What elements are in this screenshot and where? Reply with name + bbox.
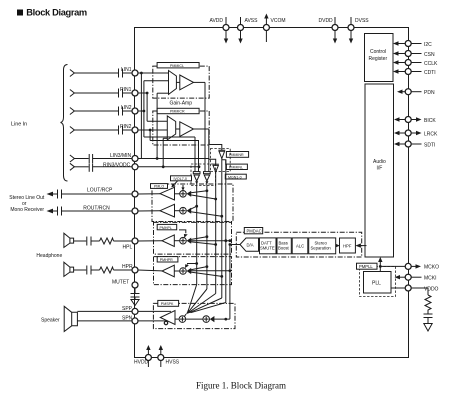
arrow into LOUT sum	[181, 185, 191, 197]
svg-text:HPF: HPF	[343, 244, 352, 249]
svg-text:PLL: PLL	[372, 281, 381, 287]
label PMMICL	[157, 63, 199, 68]
bus v216	[215, 172, 217, 294]
svg-text:RIN3/VODC: RIN3/VODC	[103, 162, 131, 168]
wire LIN2 feeder to PGA L	[144, 81, 169, 137]
svg-text:CDTI: CDTI	[424, 70, 436, 76]
svg-text:MCKO: MCKO	[424, 265, 439, 271]
label PMPLL	[357, 263, 378, 269]
svg-text:RIN1: RIN1	[120, 87, 132, 93]
pin RIN2	[120, 124, 138, 133]
block HPF	[340, 238, 356, 253]
svg-text:Boost: Boost	[278, 246, 290, 251]
arrow into ROUT sum	[187, 208, 192, 214]
pin PDN	[397, 89, 435, 96]
resistor R-HPR	[91, 267, 132, 273]
wire LIN2 in	[138, 110, 146, 113]
wire RIN3 ext	[74, 166, 88, 168]
summing node SPK2	[185, 316, 209, 323]
pin HVSS	[158, 345, 180, 367]
svg-text:SDTI: SDTI	[424, 142, 435, 148]
wire ROUT ext arrow	[47, 209, 58, 214]
summing node HPL	[174, 237, 186, 244]
attenuator A-left	[193, 172, 200, 185]
pin LRCK	[394, 130, 438, 137]
wire SPN ext	[77, 320, 132, 322]
svg-text:Figure 1. Block Diagram: Figure 1. Block Diagram	[196, 381, 286, 391]
ground GND-VCOC	[424, 324, 432, 332]
bus v199	[198, 141, 200, 172]
bus v221	[221, 159, 223, 299]
block DATT SMUTE	[260, 238, 277, 254]
wire MUTET down	[134, 288, 136, 294]
wire fan SPK 2	[189, 289, 207, 312]
arrow into HPR sum	[187, 268, 192, 274]
capacitor C-LIN3	[89, 154, 92, 163]
capacitor C-LIN1	[119, 69, 123, 78]
svg-text:RIN2: RIN2	[120, 124, 132, 130]
svg-text:LIN1: LIN1	[121, 67, 132, 73]
arrow into SPK2	[210, 316, 215, 322]
dashed box PLL	[360, 267, 396, 297]
wire T1 to T2	[222, 160, 226, 165]
svg-text:DVSS: DVSS	[355, 18, 369, 24]
block Stereo Separation	[309, 238, 336, 254]
svg-text:PMMINR: PMMINR	[229, 153, 244, 157]
wire slant LOUT a	[189, 189, 208, 193]
control arrow HPR	[185, 262, 198, 268]
input source RIN3	[70, 163, 75, 170]
pin MUTET	[112, 280, 138, 289]
svg-text:HPR: HPR	[122, 264, 133, 270]
wire PLL to Audio IF	[378, 257, 382, 272]
svg-text:I2C: I2C	[424, 42, 432, 48]
svg-text:LOUT/RCP: LOUT/RCP	[87, 188, 113, 194]
arrow fan into SPK1	[184, 309, 191, 316]
attenuator A-right	[204, 172, 211, 185]
ground GND-MUTET	[131, 300, 139, 306]
pin MCKI	[395, 274, 437, 281]
wire amp R out	[194, 129, 209, 172]
bus v225	[225, 160, 227, 303]
svg-text:PMDAC: PMDAC	[247, 229, 262, 234]
wire slant HPL b	[189, 242, 217, 246]
wire slant HPR c	[189, 269, 231, 272]
pin CDTI	[393, 69, 436, 76]
pin AVSS	[238, 17, 259, 44]
label PMLO	[151, 184, 168, 189]
bus v195	[194, 137, 196, 172]
label PMHPR	[157, 257, 178, 262]
label PMHPL	[157, 224, 177, 229]
input source RIN1	[70, 90, 75, 97]
label PMSPK	[158, 300, 179, 306]
svg-text:AVSS: AVSS	[245, 18, 259, 24]
PGA L	[169, 71, 177, 95]
svg-text:Speaker: Speaker	[41, 318, 60, 324]
dashed box attenuators	[191, 164, 216, 186]
wire fan SPK 3	[189, 294, 215, 313]
wire RIN2 to pin	[123, 129, 133, 131]
resistor R-VCOC	[425, 288, 431, 314]
svg-text:BICK: BICK	[424, 118, 436, 124]
pin CCLK	[393, 60, 438, 67]
svg-text:Audio: Audio	[373, 159, 386, 165]
label PMDAC	[244, 228, 262, 234]
wire fan SPK 4	[190, 298, 222, 312]
svg-text:VDDO: VDDO	[424, 286, 439, 292]
wire LIN3 to pin	[93, 158, 133, 160]
svg-text:SPP: SPP	[122, 306, 133, 312]
wire VCOM feeder top	[209, 145, 222, 151]
wire RIN2 ext	[74, 129, 118, 131]
svg-text:PMHPL: PMHPL	[160, 226, 172, 230]
input source RIN2	[70, 127, 75, 134]
control arrow LO	[171, 181, 177, 187]
bus v230 DAC	[229, 245, 231, 320]
amp HPR	[162, 265, 174, 277]
capacitor C-MUTET	[131, 294, 140, 300]
wire slant HPR a	[189, 265, 208, 270]
wire HPR int	[138, 269, 162, 272]
svg-text:PMMINL: PMMINL	[229, 166, 243, 170]
pin AVDD	[210, 17, 230, 44]
svg-text:PMHPR: PMHPR	[160, 258, 173, 262]
wire RIN2 in	[138, 129, 168, 132]
wire LIN1 to pin	[123, 72, 133, 74]
headphone speaker icon HPL	[64, 233, 74, 247]
svg-text:PMMICR: PMMICR	[170, 110, 185, 114]
bus v206	[196, 185, 198, 285]
arrow into HPL sum	[187, 238, 192, 244]
brace Line In	[61, 65, 68, 182]
summing node HPR	[174, 268, 186, 275]
control register U-CTRL	[365, 34, 394, 82]
headphone speaker icon HPR	[64, 262, 74, 276]
wire RIN1 feeder to PGA R	[147, 93, 167, 121]
block Bass Boost	[277, 238, 291, 254]
capacitor C-HPR	[87, 266, 91, 275]
wire LIN1 in	[138, 72, 169, 75]
pin LIN2	[121, 105, 138, 114]
speaker icon SPK	[64, 306, 77, 331]
svg-text:Mono Receiver: Mono Receiver	[10, 207, 44, 213]
input source LIN3	[70, 155, 75, 162]
wire LOUT to pin	[62, 193, 133, 195]
wire fan SPK 1	[188, 285, 197, 312]
capacitor C-RIN2	[119, 126, 123, 135]
wire LIN2 to pin	[123, 110, 133, 112]
svg-text:LRCK: LRCK	[424, 131, 438, 137]
summing node ROUT	[175, 207, 187, 214]
svg-text:MCKI: MCKI	[424, 276, 437, 282]
svg-text:D/A: D/A	[247, 243, 254, 248]
pin I2C	[393, 41, 432, 48]
svg-text:SMUTE: SMUTE	[260, 246, 275, 251]
wire slant HPL a	[189, 235, 208, 240]
svg-text:DVDD: DVDD	[319, 18, 334, 24]
attenuator T2	[209, 159, 219, 172]
control arrow HPL	[179, 230, 188, 238]
wire HPL int	[138, 240, 162, 242]
svg-text:Stereo Line Out: Stereo Line Out	[9, 195, 45, 201]
pin BICK	[394, 117, 436, 124]
bus v211	[206, 185, 208, 290]
capacitor C-VCOC	[424, 314, 433, 323]
wire AudioIF to HPF	[355, 243, 366, 247]
pin HPL	[123, 238, 139, 250]
audio interface U-AIF	[365, 84, 394, 257]
wire RIN3 line	[138, 165, 201, 168]
wire RIN1 in	[138, 92, 149, 95]
svg-text:ROUT/RCN: ROUT/RCN	[83, 205, 110, 211]
pin SPN	[122, 316, 138, 324]
summing node SPK1	[175, 316, 186, 323]
amp SPK	[160, 311, 175, 325]
wire ROUT	[138, 210, 160, 212]
wire LIN1 ext	[74, 72, 118, 74]
wire LIN1 bypass feeder	[141, 73, 195, 159]
wire DAC to SPK2	[213, 318, 230, 321]
wire slant LOUT b	[189, 195, 217, 201]
wire HPL ext	[74, 240, 87, 242]
svg-text:ALC: ALC	[296, 244, 304, 249]
DAC chain dash-dot box	[236, 232, 361, 257]
input source LIN1	[70, 70, 75, 77]
wire RIN1 to pin	[123, 92, 133, 94]
dashed box T group	[210, 149, 230, 172]
svg-text:PDN: PDN	[424, 90, 435, 96]
svg-text:Headphone: Headphone	[36, 253, 62, 259]
pin DVSS	[348, 17, 369, 44]
svg-text:Register: Register	[369, 56, 388, 62]
wire fan SPK 5	[191, 303, 226, 313]
wire DA out	[229, 243, 241, 246]
mixer box HPL	[154, 222, 232, 254]
DAC U-DA	[240, 238, 259, 251]
mixer box HPR	[154, 257, 232, 285]
svg-text:SPN: SPN	[122, 316, 133, 322]
pin HVDD	[134, 345, 151, 367]
pin DVDD	[319, 17, 339, 44]
pin CSN	[393, 51, 435, 58]
pin RIN1	[120, 87, 138, 96]
label T2	[226, 164, 247, 169]
amp LOUT	[160, 187, 175, 200]
svg-text:PMSPK: PMSPK	[161, 302, 174, 306]
svg-text:CSN: CSN	[424, 52, 435, 58]
wire MIN line	[138, 157, 209, 160]
pin ROUT/RCN	[83, 205, 138, 214]
capacitor C-RIN1	[119, 89, 123, 98]
svg-text:Block Diagram: Block Diagram	[26, 7, 87, 17]
mixer box LOUT	[152, 184, 233, 222]
mixer box SPK	[153, 303, 235, 328]
pin VCOC	[391, 285, 439, 292]
svg-text:IVOL7-0: IVOL7-0	[174, 177, 187, 181]
gain-amp dash-dot box	[153, 66, 209, 98]
label IVOL	[171, 176, 192, 181]
wire slant ROUT b	[189, 212, 223, 218]
svg-text:Separation: Separation	[311, 246, 332, 251]
label MGN	[225, 174, 246, 179]
wire LOUT ext arrow	[47, 192, 58, 197]
capacitor C-RIN3	[89, 163, 92, 172]
chip outline	[135, 28, 409, 358]
PGA R	[167, 116, 175, 140]
label PMMICR	[157, 108, 199, 113]
pin SPP	[122, 306, 138, 314]
wire ROUT to pin	[62, 210, 133, 212]
svg-text:MUTET: MUTET	[112, 280, 129, 286]
wire LOUT	[138, 193, 160, 195]
label Stereo Line Out	[9, 195, 45, 213]
wire slant HPL c	[189, 239, 231, 242]
wire SPN int	[138, 320, 168, 322]
svg-text:PMPLL: PMPLL	[359, 264, 373, 269]
capacitor C-ROUT	[58, 207, 62, 216]
input source LIN2	[70, 108, 75, 115]
wire RIN3 feeder to PGA R	[163, 138, 167, 167]
block ALC	[292, 238, 308, 254]
resistor R-HPL	[91, 238, 132, 244]
svg-text:LIN3/MIN: LIN3/MIN	[110, 153, 132, 159]
amp ROUT	[160, 204, 175, 217]
wire LIN2 ext	[74, 110, 118, 112]
svg-text:Gain-Amp: Gain-Amp	[170, 101, 193, 107]
svg-text:PMLO: PMLO	[154, 185, 164, 189]
summing node LOUT	[175, 191, 187, 198]
svg-text:HVDD: HVDD	[134, 359, 149, 365]
label T1	[226, 152, 248, 158]
wire SPP ext	[77, 310, 132, 312]
pin MCKO	[381, 263, 439, 270]
attenuator T1	[218, 150, 225, 158]
wire HPF to StereoSep	[336, 244, 340, 248]
wire RIN3 to pin	[93, 166, 133, 168]
wire MIN feeder to PGA L	[157, 93, 168, 158]
wire slant ROUT a	[189, 205, 198, 210]
svg-text:HPL: HPL	[123, 244, 133, 250]
wire RIN1 ext	[74, 92, 118, 94]
wire SPP int	[138, 310, 171, 312]
capacitor C-HPL	[87, 237, 91, 246]
wire HPR ext	[74, 269, 87, 271]
capacitor C-LOUT	[58, 190, 62, 199]
wire RIN2 bypass feeder	[150, 130, 199, 141]
pin HPR	[122, 264, 138, 273]
svg-text:PMMICL: PMMICL	[170, 64, 184, 68]
wire slant HPR b	[189, 272, 223, 278]
pin LIN3/MIN	[110, 153, 138, 162]
amp L	[176, 75, 193, 90]
wire amp L out	[194, 82, 206, 171]
svg-text:CCLK: CCLK	[424, 61, 438, 67]
pin VCOM	[263, 14, 285, 43]
svg-text:HVSS: HVSS	[166, 359, 180, 365]
pin SDTI	[394, 141, 435, 148]
svg-text:VCOM: VCOM	[271, 18, 286, 24]
PLL block U-PLL	[364, 272, 392, 294]
svg-text:LIN2: LIN2	[121, 105, 132, 111]
svg-text:Line In: Line In	[11, 122, 27, 128]
amp HPL	[162, 235, 174, 247]
pin LOUT/RCP	[87, 188, 138, 198]
capacitor C-LIN2	[119, 107, 123, 116]
pin LIN1	[121, 67, 138, 76]
amp R	[176, 122, 194, 137]
pin RIN3/VODC	[103, 162, 138, 170]
svg-text:Control: Control	[370, 49, 386, 55]
svg-text:AVDD: AVDD	[210, 18, 224, 24]
svg-text:MGN1-0: MGN1-0	[228, 175, 242, 179]
svg-text:I/F: I/F	[377, 166, 383, 172]
wire LIN3 ext	[74, 158, 88, 160]
